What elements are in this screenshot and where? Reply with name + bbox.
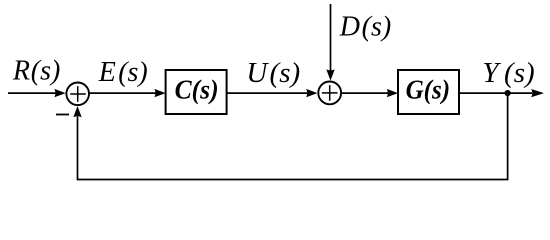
node U(s) control signal label	[246, 57, 300, 89]
node R(s) input label	[12, 56, 60, 87]
node junction dot on output	[505, 90, 511, 96]
node Y(s) output label	[482, 57, 534, 89]
node E(s) error label	[98, 57, 148, 88]
plant block G(s)	[398, 70, 459, 114]
svg-text:R(s): R(s)	[12, 56, 60, 87]
summing junction S2	[318, 82, 341, 105]
wire S1 to block C	[90, 89, 166, 97]
wire S2 to block G	[342, 89, 398, 97]
node D(s) disturbance label	[339, 12, 391, 43]
controller block C(s)	[166, 70, 227, 114]
wire R(s) input to summing junction S1	[8, 89, 66, 97]
svg-text:E(s): E(s)	[98, 57, 148, 88]
svg-text:D(s): D(s)	[339, 12, 391, 43]
summing junction S1	[66, 83, 89, 106]
wire G to output Y(s)	[459, 89, 544, 97]
wire feedback path from output node back to S1	[73, 93, 507, 179]
svg-text:C(s): C(s)	[175, 75, 219, 105]
svg-text:U(s): U(s)	[246, 57, 300, 89]
svg-text:G(s): G(s)	[406, 75, 451, 105]
wire C to summing junction S2	[227, 89, 318, 97]
svg-text:Y(s): Y(s)	[482, 57, 534, 89]
wire D(s) disturbance into S2	[326, 4, 334, 81]
minus sign at S1 feedback input	[56, 114, 69, 116]
